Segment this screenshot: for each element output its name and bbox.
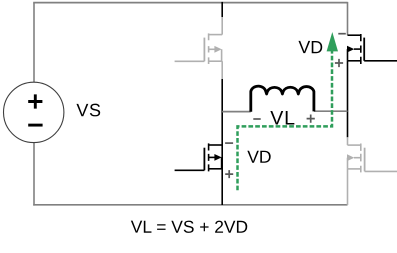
voltage source plus sign (28, 94, 42, 108)
mosfet Q2 top-right (active) (348, 34, 397, 64)
wire left branch black segment (221, 79, 223, 205)
mosfet Q4 body arrow (347, 154, 354, 161)
wire source bottom to rail (33, 142, 35, 206)
wire left branch top black tick (221, 2, 223, 17)
mosfet Q4 bottom-right (inactive) (348, 144, 397, 173)
svg-text:VD: VD (298, 37, 323, 57)
top rail wire (33, 2, 347, 4)
wire midpoint left to inductor (222, 111, 251, 113)
diode VD mid plus sign (225, 170, 233, 178)
wire source top to rail (33, 3, 35, 83)
diode VD top minus sign (338, 33, 346, 35)
svg-text:VL = VS + 2VD: VL = VS + 2VD (131, 217, 248, 237)
wire right branch black segment (347, 61, 349, 138)
wire right branch gray top (347, 2, 349, 35)
wire left branch light segment to Q1 (221, 17, 223, 35)
diode VD top plus sign (335, 59, 343, 67)
svg-text:VD: VD (247, 147, 271, 167)
inductor L1 (251, 86, 314, 112)
mosfet Q1 top-left (inactive) (175, 33, 223, 64)
green current arrowhead (327, 32, 338, 51)
mosfet Q3 body arrow (214, 154, 221, 161)
green current path dashed (238, 51, 333, 190)
mosfet Q1 body arrow (214, 46, 221, 53)
diode VD mid minus sign (225, 142, 233, 144)
voltage source minus sign (28, 124, 42, 127)
mosfet Q2 body arrow (347, 46, 354, 53)
wire right branch bottom light (347, 169, 349, 205)
bottom rail wire (33, 204, 347, 206)
wire right branch light segment (347, 137, 349, 145)
VL minus sign (253, 118, 260, 120)
svg-text:VS: VS (76, 100, 101, 120)
wire inductor to midpoint right (314, 110, 348, 112)
VL plus sign (307, 115, 315, 123)
voltage source VS circle (4, 82, 64, 142)
wire Q1 source light segment (221, 61, 223, 79)
mosfet Q3 bottom-left (active) (175, 143, 223, 171)
